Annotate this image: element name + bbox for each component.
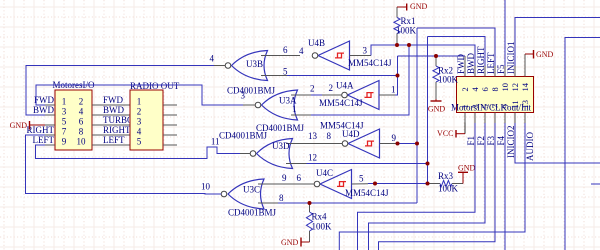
svg-text:CD4001BMJ: CD4001BMJ <box>227 86 276 96</box>
svg-text:10: 10 <box>201 182 211 192</box>
junction Rx1 to BWD net <box>395 43 399 47</box>
NOR gate U3B <box>210 45 301 96</box>
svg-text:3: 3 <box>241 91 246 101</box>
wire AUDIO to bottom edge <box>524 113 526 124</box>
inverter U4D <box>320 121 398 159</box>
svg-text:2: 2 <box>460 87 470 91</box>
power port GND above Rx1 <box>397 2 428 11</box>
svg-text:1: 1 <box>137 97 142 107</box>
svg-text:2: 2 <box>310 84 315 94</box>
svg-text:8: 8 <box>79 127 84 137</box>
net labels between connectors <box>103 95 134 145</box>
svg-text:11: 11 <box>211 137 220 147</box>
svg-text:AUDIO: AUDIO <box>525 132 535 161</box>
svg-text:8: 8 <box>279 193 284 203</box>
svg-text:5: 5 <box>480 104 490 108</box>
svg-text:4: 4 <box>299 46 304 56</box>
junction U4D in9 branch <box>396 142 400 146</box>
svg-text:GND: GND <box>10 121 28 130</box>
wire U4C in5 to Rx3 <box>368 183 428 185</box>
svg-text:2: 2 <box>137 107 142 117</box>
svg-text:GND: GND <box>458 164 476 173</box>
wire IC pin6 elbow from x427 vertical <box>428 37 486 67</box>
wire F5 from top edge to IC pin10 <box>504 0 506 66</box>
svg-text:13: 13 <box>520 100 530 109</box>
power port GND below Rx4 <box>281 238 310 248</box>
svg-text:9: 9 <box>500 104 510 108</box>
svg-text:7: 7 <box>62 127 67 137</box>
svg-text:MM54C14J: MM54C14J <box>320 121 364 131</box>
wire stub at right edge <box>591 183 600 185</box>
inverter U4C <box>297 168 390 199</box>
svg-text:100K: 100K <box>396 26 417 36</box>
svg-text:3: 3 <box>363 46 368 56</box>
resistor Rx2 <box>433 56 459 99</box>
svg-text:6: 6 <box>79 117 84 127</box>
svg-text:GND: GND <box>536 50 554 59</box>
svg-text:9: 9 <box>282 173 287 183</box>
wire U3A in2 to U4A output <box>311 94 322 96</box>
junction Rx2 to pin2 net <box>434 54 438 58</box>
power port GND right of Rx3 <box>458 164 476 184</box>
svg-text:13: 13 <box>308 131 318 141</box>
svg-text:11: 11 <box>510 100 520 108</box>
svg-text:MM54C14J: MM54C14J <box>348 58 392 68</box>
svg-text:5: 5 <box>359 174 364 184</box>
wire U3C output to MotoresI/O RIGHT <box>26 135 222 194</box>
svg-text:U3D: U3D <box>272 141 290 151</box>
svg-text:RIGHT: RIGHT <box>27 125 55 135</box>
svg-text:1: 1 <box>62 97 67 107</box>
svg-text:100K: 100K <box>438 75 459 85</box>
svg-text:6: 6 <box>283 45 288 55</box>
wire U3D output to MotoresI/O LEFT <box>36 145 241 159</box>
svg-text:12: 12 <box>308 153 317 163</box>
NOR gate U3D <box>211 131 342 169</box>
wire U4B input net (BWD) with Rx1, U3A in1, IC pin4 <box>371 45 475 66</box>
svg-text:FWD: FWD <box>103 95 124 105</box>
NOR gate U3C <box>201 173 314 218</box>
junction BWD net branch <box>407 43 411 47</box>
svg-text:RADIO OUT: RADIO OUT <box>130 81 180 91</box>
junction U4C in5 junction <box>373 182 377 186</box>
svg-text:100K: 100K <box>438 184 459 194</box>
resistor Rx3 <box>428 171 464 194</box>
power port GND at IC pin 14 <box>525 50 554 66</box>
svg-text:MM54C14J: MM54C14J <box>319 98 363 108</box>
wire F3 to bottom edge <box>494 113 496 124</box>
IC MotorsIN/CLKout/Int <box>451 42 535 162</box>
svg-text:14: 14 <box>520 82 530 91</box>
svg-text:BWD: BWD <box>33 105 54 115</box>
wire INICIO1 from right edge to IC pin12 <box>515 18 600 67</box>
svg-text:1: 1 <box>460 104 470 108</box>
svg-text:CD4001BMJ: CD4001BMJ <box>219 131 268 141</box>
wire x427 vertical to U3D in12 and Rx3 line <box>427 37 429 184</box>
svg-text:100K: 100K <box>312 222 333 232</box>
power port GND below VCC (pin1 rail) <box>0 0 1 1</box>
svg-text:4: 4 <box>210 54 215 64</box>
svg-text:GND: GND <box>410 2 428 11</box>
svg-text:9: 9 <box>62 137 67 147</box>
svg-text:RIGHT: RIGHT <box>103 125 131 135</box>
svg-text:12: 12 <box>510 83 520 92</box>
svg-text:U4D: U4D <box>342 129 360 139</box>
svg-text:9: 9 <box>392 133 397 143</box>
svg-text:U3C: U3C <box>243 185 260 195</box>
svg-text:GND: GND <box>428 105 446 114</box>
svg-text:6: 6 <box>480 87 490 91</box>
svg-text:2: 2 <box>79 97 84 107</box>
wire F1 to bottom edge <box>474 113 476 124</box>
resistor Rx1 <box>394 7 417 45</box>
svg-text:6: 6 <box>297 173 302 183</box>
junction Rx4 junction <box>308 201 312 205</box>
inverter U4A <box>319 81 396 110</box>
wire F4 to bottom edge <box>504 113 506 124</box>
power port GND at MotoresI/O pin 5 <box>10 121 45 130</box>
junction U3D in12 branch <box>426 162 430 166</box>
power port VCC at IC pin 1 <box>437 123 465 139</box>
svg-text:U4B: U4B <box>308 38 325 48</box>
svg-text:2: 2 <box>329 83 334 93</box>
svg-text:CD4001BMJ: CD4001BMJ <box>228 208 277 218</box>
svg-text:4: 4 <box>137 127 142 137</box>
wire LEFT net: IC pin8 elbow, U4D in9, U3C in8, Rx4 <box>417 28 495 66</box>
connector RADIO OUT <box>130 81 180 150</box>
wire right edge to bottom edge via x565 <box>565 38 600 250</box>
svg-text:8: 8 <box>490 87 500 91</box>
wire net to IC pin2: U3B in5, U4A in1, Rx2 <box>398 55 466 57</box>
svg-text:10: 10 <box>500 83 510 92</box>
svg-text:Rx1: Rx1 <box>401 16 416 26</box>
wire U3A output to MotoresI/O FWD <box>36 85 243 105</box>
svg-text:BWD: BWD <box>103 105 124 115</box>
wire branch to U3A input 1 <box>311 45 409 115</box>
wire INICIO2 to right edge <box>514 113 516 124</box>
svg-text:FWD: FWD <box>34 95 55 105</box>
NOR gate U3A <box>241 84 315 134</box>
power port GND below Rx2 <box>428 99 446 114</box>
svg-text:U4C: U4C <box>316 168 333 178</box>
svg-text:VCC: VCC <box>437 129 453 138</box>
svg-text:U4A: U4A <box>336 81 354 91</box>
resistor Rx4 <box>306 203 332 242</box>
svg-text:Rx3: Rx3 <box>438 171 454 181</box>
junction U3B in5 branch <box>396 74 400 78</box>
wire U3B output to MotoresI/O BWD <box>214 65 225 67</box>
wire F2 to bottom edge <box>484 113 486 124</box>
svg-text:MM54C14J: MM54C14J <box>345 188 389 198</box>
svg-text:3: 3 <box>470 104 480 108</box>
svg-text:LEFT: LEFT <box>33 135 55 145</box>
svg-text:TURBO: TURBO <box>103 115 134 125</box>
connector MotoresI/O <box>27 80 131 150</box>
svg-text:5: 5 <box>137 137 142 147</box>
svg-text:LEFT: LEFT <box>103 135 125 145</box>
junction LEFT net branch <box>415 142 419 146</box>
svg-text:3: 3 <box>62 107 67 117</box>
svg-text:10: 10 <box>77 137 87 147</box>
svg-text:Rx4: Rx4 <box>312 212 328 222</box>
svg-text:3: 3 <box>137 117 142 127</box>
junction Rx3 line branch <box>426 182 430 186</box>
svg-text:1: 1 <box>391 85 396 95</box>
svg-text:7: 7 <box>490 104 500 108</box>
svg-text:5: 5 <box>62 117 67 127</box>
svg-text:GND: GND <box>281 238 299 247</box>
svg-text:U3B: U3B <box>246 59 263 69</box>
svg-text:1: 1 <box>292 104 297 114</box>
inverter U4B <box>299 38 392 70</box>
svg-text:4: 4 <box>79 107 84 117</box>
svg-text:8: 8 <box>327 131 332 141</box>
